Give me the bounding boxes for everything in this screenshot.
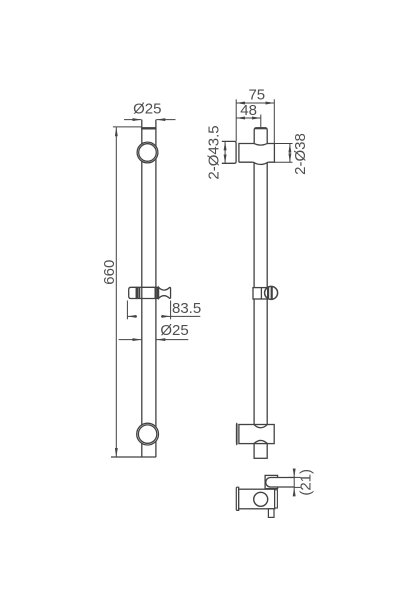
dimension 2-Ø38 [274, 144, 292, 163]
svg-text:48: 48 [240, 102, 257, 119]
svg-text:(21): (21) [297, 469, 314, 496]
detail body [239, 489, 275, 509]
slider band left [136, 287, 138, 298]
bottom stub [254, 444, 267, 459]
slider knob (spool shape) [159, 287, 171, 298]
top bracket body [239, 144, 275, 163]
slider body top edge [136, 286, 158, 288]
dimension Ø25 (bottom) [119, 339, 189, 341]
detail hook clip [265, 475, 278, 488]
rail top cap [141, 127, 156, 129]
svg-text:75: 75 [248, 87, 265, 104]
detail screw hole circle [254, 492, 268, 506]
dimension (21) [289, 469, 301, 495]
svg-text:2-Ø43.5: 2-Ø43.5 [206, 125, 223, 179]
dimension 83.5 [127, 301, 200, 320]
wire: rail left edge [141, 120, 143, 457]
top bracket wall flange (open left, edges double as ext lines) [222, 141, 236, 163]
detail hand-shower tube [266, 478, 294, 488]
dimension 48 [236, 115, 261, 128]
detail wall flange [236, 487, 238, 510]
svg-text:83.5: 83.5 [172, 300, 201, 317]
bottom bracket stub shoulder arc [254, 440, 267, 443]
slider body bottom edge [136, 298, 158, 300]
knob end chords [267, 287, 269, 298]
top wall-bracket circle [137, 142, 158, 163]
svg-text:Ø25: Ø25 [133, 101, 161, 118]
dimension 2-Ø43.5 [224, 141, 226, 163]
dimension Ø25 (top) [124, 119, 176, 121]
top bracket sleeve arc (bottom) [253, 162, 268, 164]
wire: rail right edge [155, 120, 157, 457]
rail bottom baseline [111, 456, 156, 458]
bottom bracket body [239, 425, 274, 444]
svg-text:Ø25: Ø25 [160, 322, 188, 339]
detail bottom stub [268, 509, 274, 518]
detail clamp strip [275, 490, 278, 508]
slider block (left) [129, 287, 137, 298]
dimension 75 [236, 99, 274, 143]
dimension 660 [113, 127, 141, 457]
knob top cap thick line [255, 127, 267, 129]
wire: right rail left edge [253, 162, 255, 425]
svg-text:660: 660 [101, 260, 118, 285]
bottom wall-bracket circle [137, 423, 159, 445]
side slider body [253, 288, 267, 299]
side slider knob end circle [265, 286, 278, 299]
bottom bracket wall flange line [236, 423, 239, 445]
svg-text:2-Ø38: 2-Ø38 [292, 133, 309, 175]
side slider divider [260, 288, 262, 299]
top bracket pivot knob [254, 128, 267, 145]
wire: right rail right edge [266, 162, 268, 425]
bottom bracket rail entry arc [254, 425, 267, 428]
slider band right [154, 287, 156, 298]
